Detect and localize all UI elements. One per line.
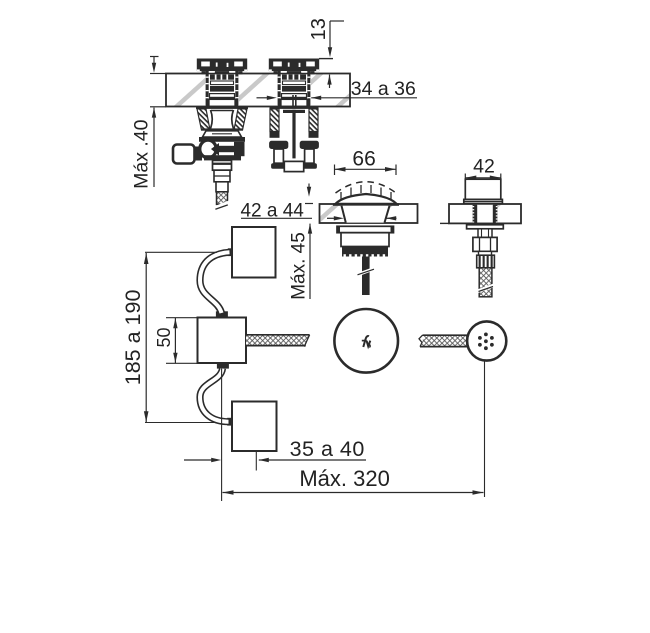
svg-text:35 a 40: 35 a 40: [290, 437, 365, 461]
svg-text:13: 13: [308, 18, 330, 40]
svg-text:66: 66: [352, 148, 375, 171]
svg-text:185 a 190: 185 a 190: [121, 290, 145, 386]
svg-text:50: 50: [154, 327, 174, 347]
svg-text:Máx .40: Máx .40: [131, 119, 153, 189]
svg-text:Máx. 45: Máx. 45: [289, 232, 310, 300]
svg-text:Máx. 320: Máx. 320: [299, 466, 390, 491]
svg-text:34 a 36: 34 a 36: [351, 78, 416, 100]
svg-text:42: 42: [473, 156, 495, 178]
